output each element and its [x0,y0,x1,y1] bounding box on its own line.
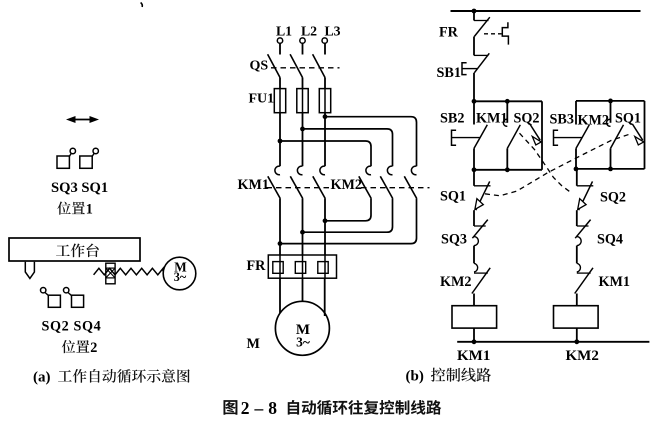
terminal L2 [300,23,317,43]
wires FR to motor [280,278,325,316]
scan speck [141,3,143,8]
limit switch contact SQ1 (NO) in right group [615,101,645,169]
dog/stop pointer under table [25,262,34,279]
spring / screw shaft zigzag [94,268,164,275]
svg-text:SB1: SB1 [437,65,461,81]
svg-text:FR: FR [247,258,267,274]
label 位置2 (position 2) [62,340,98,356]
motor M 3~ (circle) [275,301,329,355]
svg-text:FR: FR [439,24,459,40]
KM1 output wires with junction dots [278,199,328,255]
disconnect switch QS (3 blades) [250,54,340,77]
svg-text:L3: L3 [324,23,340,38]
mechanical linkage dashed line SQ2 [520,133,572,193]
feed wires to KM2 contacts (rounded corners) [280,117,417,167]
svg-text:3~: 3~ [296,335,310,350]
label 位置1 (position 1) [57,202,93,218]
svg-text:SQ1: SQ1 [440,189,466,205]
svg-text:1: 1 [86,202,93,218]
svg-text:KM1: KM1 [457,348,490,364]
KM1 self-hold aux contact (NO) [476,101,520,170]
limit switch contact SQ2 (NO) in left group [514,101,543,170]
limit switch SQ2 NC contact (right chain) [577,169,626,226]
limit switch SQ4 NC contact (right chain) [575,220,623,264]
svg-text:KM1: KM1 [599,274,631,290]
svg-text:KM2: KM2 [578,113,610,129]
limit switch SQ4 (pictorial) [63,288,83,308]
svg-text:KM2: KM2 [331,177,363,193]
contactor coil KM2 [554,306,599,342]
terminal L3 [322,23,341,43]
svg-text:SB3: SB3 [550,112,574,128]
svg-text:KM1: KM1 [238,177,270,193]
limit switch SQ2 (pictorial) [41,288,61,308]
KM2 output crossover wires (rounded corners) [280,199,417,244]
wires QS to fuses [280,78,325,89]
double-headed motion arrow [66,116,99,123]
contactor KM2 main contacts [331,166,430,199]
FR trip symbol + dashed link [484,22,508,44]
svg-text:QS: QS [250,59,269,74]
svg-text:SQ2 SQ4: SQ2 SQ4 [42,319,102,335]
limit switch SQ1 (pictorial) [80,148,99,168]
svg-text:SQ4: SQ4 [597,231,623,247]
svg-text:SQ2: SQ2 [600,190,626,206]
KM2 self-hold aux contact (NO) [578,101,624,169]
terminal L1 [276,23,292,43]
drive motor M 3~ (pictorial) [163,257,196,290]
figure caption 图 2-8 [223,398,441,418]
left group bottom bus [472,167,542,172]
svg-text:2 – 8: 2 – 8 [241,398,277,418]
stop button SB1 (NC) [437,53,490,101]
lead-screw nut [106,263,115,284]
svg-text:SQ3 SQ1: SQ3 SQ1 [51,180,108,196]
svg-text:(a): (a) [33,370,51,386]
fuses FU1 [249,89,331,113]
KM1 interlock NC contact (right chain) [575,263,630,305]
contactor KM1 main contacts [238,166,331,199]
svg-text:SQ3: SQ3 [441,231,467,247]
svg-text:KM2: KM2 [440,274,472,290]
phase wires with junction dots [278,113,328,167]
svg-text:M: M [247,336,260,352]
svg-text:3~: 3~ [174,270,187,284]
control supply line [451,9,641,14]
svg-text:SQ2: SQ2 [514,110,540,126]
limit switch SQ3 (pictorial) [57,148,76,168]
FR NC contact (control) [439,11,490,55]
svg-text:KM2: KM2 [566,348,599,364]
start button SB2 (NO) [440,101,487,170]
svg-text:L2: L2 [301,23,317,38]
left group top bus [472,99,542,104]
svg-text:2: 2 [90,340,97,356]
svg-text:L1: L1 [276,23,292,38]
caption (a) work auto-cycle sketch [33,369,190,386]
limit switch SQ1 NC contact (left chain) [440,170,491,226]
start button SB3 (NO) [550,101,590,169]
worktable 工作台 box [9,238,140,261]
svg-text:(b): (b) [406,369,424,385]
contactor coil KM1 [452,306,497,342]
mechanical linkage dashed line SQ1 [485,134,630,196]
limit switch SQ3 NC contact (left chain) [441,220,488,264]
KM2 interlock NC contact (left chain) [440,263,490,305]
svg-text:FU1: FU1 [249,92,275,107]
thermal overload relay FR heaters [247,255,337,278]
svg-text:SB2: SB2 [440,110,464,126]
caption (b) control circuit [406,368,491,385]
svg-text:SQ1: SQ1 [615,111,641,127]
right group top bus [576,99,645,104]
wire stubs below terminals [280,43,325,54]
right group bottom bus [574,167,645,172]
control bottom line [457,339,649,344]
